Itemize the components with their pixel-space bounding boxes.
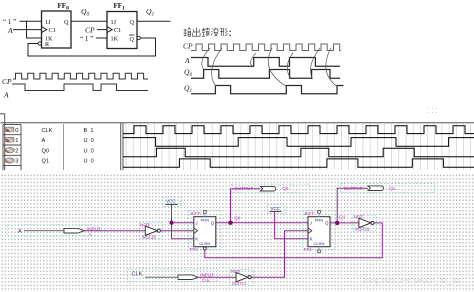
svg-text:Q: Q bbox=[130, 19, 135, 26]
output pin Q1 bbox=[341, 184, 435, 193]
wire VCC to FF0 J/K bbox=[172, 205, 194, 239]
output pin Q0 bbox=[232, 184, 311, 193]
analyser window frame bbox=[0, 114, 474, 171]
svg-text:A: A bbox=[7, 26, 13, 35]
power VCC (FF0) bbox=[163, 197, 181, 206]
svg-text:J: J bbox=[195, 221, 197, 226]
svg-text:INST17: INST17 bbox=[232, 281, 247, 286]
svg-text:CP: CP bbox=[2, 77, 12, 86]
wire CP clock waveform bbox=[13, 73, 148, 79]
decorative corner dots top right bbox=[428, 108, 437, 113]
svg-text:A: A bbox=[42, 138, 46, 144]
svg-text:1K: 1K bbox=[111, 36, 119, 43]
svg-text:3: 3 bbox=[15, 159, 18, 165]
svg-text:VCC: VCC bbox=[166, 199, 176, 204]
wire Q1 waveform right block bbox=[191, 86, 344, 94]
svg-text:A: A bbox=[89, 232, 92, 237]
svg-text:PRN: PRN bbox=[201, 218, 210, 223]
svg-text:Q: Q bbox=[211, 221, 215, 226]
svg-text:JKFF: JKFF bbox=[190, 211, 201, 216]
svg-text:0: 0 bbox=[15, 128, 18, 134]
svg-text:blog.csdn.net/weixin_dn_dz: blog.csdn.net/weixin_dn_dz bbox=[364, 278, 461, 285]
flip-flop FF1 box bbox=[107, 2, 140, 48]
analyser waveform grid bbox=[126, 124, 471, 171]
svg-text:C1: C1 bbox=[114, 27, 121, 34]
svg-text:INST19: INST19 bbox=[355, 227, 370, 232]
input pin CLK bbox=[127, 269, 217, 283]
label: chinese title output waveforms bbox=[184, 28, 231, 37]
svg-text:JKFF: JKFF bbox=[304, 211, 315, 216]
wire branch 1 to 1K bbox=[27, 21, 42, 38]
svg-text:CLK: CLK bbox=[132, 272, 143, 278]
svg-text:CP: CP bbox=[85, 25, 95, 34]
svg-text:Q: Q bbox=[64, 19, 69, 26]
SECTION 2 : output waveform diagram (top-right) bbox=[183, 28, 344, 94]
wire net A bbox=[84, 230, 145, 232]
svg-text:A: A bbox=[18, 229, 22, 235]
svg-text:Q0: Q0 bbox=[42, 148, 49, 154]
svg-text:FF1: FF1 bbox=[114, 2, 126, 12]
wire analyser A waveform bbox=[123, 138, 474, 147]
svg-text:Q1: Q1 bbox=[146, 7, 154, 18]
svg-text:1J: 1J bbox=[111, 19, 117, 26]
svg-text:CLRN: CLRN bbox=[314, 241, 325, 246]
analyser channel table bbox=[3, 124, 21, 170]
wire feedback to R bbox=[28, 44, 38, 57]
wire CP clock waveform right block bbox=[191, 44, 341, 51]
svg-text:CP: CP bbox=[183, 42, 193, 51]
svg-text:CLK: CLK bbox=[202, 278, 210, 283]
wire Q0 waveform right block bbox=[191, 70, 340, 79]
wire Q0 : FF0.Q to FF1.1J bbox=[71, 20, 107, 22]
svg-text:1: 1 bbox=[15, 138, 18, 144]
wire analyser CLK waveform bbox=[123, 126, 474, 134]
wire NOT3 output to FF1 clock bbox=[249, 231, 308, 278]
wire NOT1 output to FF0 clock bbox=[161, 230, 194, 232]
svg-text:OUTPUT: OUTPUT bbox=[344, 186, 363, 191]
SECTION 1b : CP / A stimulus waveforms (left) bbox=[2, 73, 148, 99]
svg-text:1J: 1J bbox=[45, 19, 51, 26]
wire net CLK bbox=[198, 276, 236, 278]
analyser channel 1 icon bbox=[6, 137, 15, 142]
svg-text:2: 2 bbox=[15, 148, 18, 154]
svg-text:PRN: PRN bbox=[315, 218, 324, 223]
wire FF1.Qbar feedback to FF0.R bbox=[28, 38, 156, 56]
svg-text:“ 1 ”: “ 1 ” bbox=[3, 18, 16, 26]
svg-text:FF0: FF0 bbox=[58, 2, 70, 12]
svg-text:B 1: B 1 bbox=[84, 128, 94, 134]
svg-text:Q0: Q0 bbox=[282, 186, 289, 191]
svg-text:A: A bbox=[3, 91, 9, 100]
inverter INST18 (NOT) bbox=[139, 222, 163, 239]
wire A waveform right block bbox=[191, 58, 340, 67]
wire FF0 CLRN feedback bbox=[203, 247, 206, 250]
svg-text:Q1: Q1 bbox=[389, 186, 396, 191]
analyser channel 2 icon bbox=[5, 148, 14, 153]
SECTION 1 : textbook flip-flop circuit (top-left) bbox=[3, 2, 170, 56]
svg-text:VCC: VCC bbox=[270, 206, 280, 211]
svg-text:K: K bbox=[310, 237, 313, 242]
svg-text:Q1: Q1 bbox=[184, 84, 192, 95]
node junction Q0 bbox=[228, 221, 232, 225]
FF1 CLRN stub bbox=[318, 247, 320, 250]
svg-text:Q: Q bbox=[325, 221, 329, 226]
svg-text:U 0: U 0 bbox=[84, 138, 94, 144]
svg-text:A: A bbox=[184, 56, 190, 65]
flip-flop FF1 (JKFF) bbox=[303, 211, 335, 253]
svg-text:Q1: Q1 bbox=[42, 159, 49, 165]
svg-text:OUTPUT: OUTPUT bbox=[234, 186, 253, 191]
node junction VCC/J bbox=[169, 221, 173, 225]
wire analyser Q1 waveform bbox=[123, 159, 474, 167]
svg-text:Q0: Q0 bbox=[81, 7, 89, 18]
svg-text:J: J bbox=[310, 221, 312, 226]
wire net Q0 bbox=[216, 189, 308, 223]
flip-flop FF0 box bbox=[38, 2, 71, 48]
wire analyser Q0 waveform bbox=[123, 148, 474, 156]
analyser channel 0 icon bbox=[6, 127, 15, 132]
grid dots background bbox=[0, 174, 474, 292]
svg-text:Q1: Q1 bbox=[339, 215, 346, 221]
wire VCC to FF1 K bbox=[275, 212, 308, 239]
svg-text:U 0: U 0 bbox=[84, 148, 94, 154]
inverter INST17 (NOT) bbox=[230, 269, 254, 286]
wire A waveform bbox=[12, 84, 148, 91]
wire "1" to 1J bbox=[20, 20, 42, 22]
power VCC (FF1) bbox=[267, 205, 285, 214]
wire CP to FF1.C1 bbox=[98, 29, 108, 31]
svg-text:C1: C1 bbox=[49, 27, 56, 34]
svg-text:CLK: CLK bbox=[42, 128, 53, 134]
wire FF1.Q output Q1 bbox=[137, 20, 170, 22]
svg-text:FF1: FF1 bbox=[304, 247, 313, 252]
svg-text:“ 1 ”: “ 1 ” bbox=[80, 35, 93, 43]
flip-flop FF0 (JKFF) bbox=[189, 211, 221, 253]
svg-text:INST18: INST18 bbox=[142, 234, 157, 239]
svg-text:Q0: Q0 bbox=[234, 216, 241, 222]
wire "1" to FF1.1K bbox=[97, 37, 108, 39]
analyser channel 3 icon bbox=[5, 158, 14, 163]
svg-text:Q0: Q0 bbox=[184, 68, 192, 79]
wire A to C1 bbox=[14, 29, 42, 31]
svg-text:U 0: U 0 bbox=[84, 159, 94, 165]
svg-text:CLRN: CLRN bbox=[199, 241, 210, 246]
inverter INST19 (NOT) bbox=[353, 215, 377, 232]
input pin A bbox=[7, 225, 105, 237]
wire causality arcs bbox=[202, 48, 338, 87]
wire net Q1 bbox=[330, 188, 368, 223]
svg-text:FF0: FF0 bbox=[190, 247, 199, 252]
svg-text:K: K bbox=[195, 237, 198, 242]
node junction Q1 bbox=[335, 221, 339, 225]
SECTION 3 : logic analyser window (middle) bbox=[0, 114, 474, 171]
svg-text:Q: Q bbox=[130, 36, 135, 43]
